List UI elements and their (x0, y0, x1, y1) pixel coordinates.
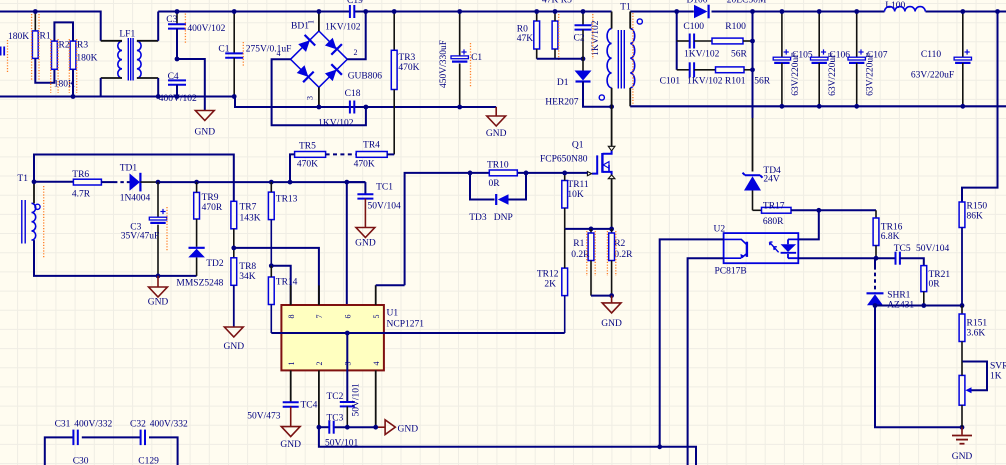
svg-text:4: 4 (372, 362, 381, 366)
svg-text:R150: R150 (967, 202, 988, 212)
svg-text:GND: GND (224, 342, 245, 352)
svg-text:TR16: TR16 (881, 223, 903, 233)
capacitor C4 X-cap (168, 79, 186, 81)
wire U2 anode riser (798, 210, 819, 239)
svg-text:50V/473: 50V/473 (247, 412, 281, 422)
svg-text:0.2R: 0.2R (614, 250, 633, 260)
diode TD4 24V zener (743, 173, 763, 178)
wire TC row (319, 426, 329, 428)
svg-text:D1: D1 (557, 78, 569, 88)
resistor TR10 (489, 170, 517, 176)
resistor TR16 (875, 210, 877, 218)
svg-text:PC817B: PC817B (715, 267, 747, 277)
wire R150 feed from output (962, 12, 998, 203)
resistor TR6 (73, 179, 101, 185)
wire top-left AC rail (0, 12, 101, 41)
capacitor TC5 (895, 252, 897, 265)
svg-text:D100: D100 (686, 0, 707, 6)
diode BD1 upper-left (297, 35, 315, 53)
capacitor C100 (677, 40, 690, 42)
resistor R151 (961, 306, 963, 315)
svg-text:R2: R2 (614, 239, 625, 249)
wire DRV jog to pin5 (376, 284, 405, 286)
svg-text:T1: T1 (620, 3, 631, 13)
svg-text:1KV/102: 1KV/102 (325, 22, 361, 32)
resistor R150 (959, 202, 965, 228)
svg-text:20LC50M: 20LC50M (727, 0, 767, 6)
svg-text:C100: C100 (683, 22, 704, 32)
capacitor C1 electrolytic 450V/330uF (459, 12, 461, 56)
wire R3 bottom (72, 69, 74, 96)
capacitor C31 (72, 430, 74, 446)
svg-text:8: 8 (287, 315, 296, 319)
svg-text:MMSZ5248: MMSZ5248 (176, 279, 223, 289)
node junction FB collector (657, 444, 662, 449)
svg-text:T1: T1 (17, 174, 28, 184)
svg-text:U2: U2 (714, 225, 726, 235)
diode TD3 DNP (470, 173, 495, 200)
wire GND tap from C3-C4 (177, 59, 205, 111)
node junction drain (609, 104, 614, 109)
svg-text:1KV/102: 1KV/102 (687, 76, 723, 86)
node junction TR10 left (468, 171, 473, 176)
optocoupler U2 PC817B (724, 233, 799, 263)
capacitor C18 (349, 101, 351, 114)
wire T1 secondary top lead (629, 12, 631, 29)
diode BD1 upper-right (324, 36, 342, 54)
svg-text:TR5: TR5 (299, 142, 316, 152)
node junction R3 bottom (71, 94, 76, 99)
capacitor TC4 (283, 401, 299, 403)
resistor R0 (534, 21, 540, 49)
svg-text:470K: 470K (398, 63, 419, 73)
svg-text:400V/102: 400V/102 (187, 24, 225, 34)
capacitor C2 (582, 12, 584, 26)
svg-text:C32: C32 (130, 420, 146, 430)
capacitor TC2 (340, 401, 355, 403)
svg-text:FCP650N80: FCP650N80 (540, 155, 588, 165)
svg-text:143K: 143K (240, 214, 261, 224)
op-amp U1 NCP1271 controller (281, 305, 384, 370)
wire T1 primary top lead (611, 12, 613, 29)
wire BD1 pin2 lead (347, 12, 365, 60)
wire bottom-left cap string (45, 437, 74, 465)
earth ground GND output (961, 427, 963, 435)
resistor TR11 (562, 181, 568, 209)
capacitor TC3 (328, 421, 330, 434)
svg-text:56R: 56R (754, 76, 771, 86)
wire aux bottom lead and bottom rail (34, 240, 197, 276)
svg-text:NCP1271: NCP1271 (387, 320, 425, 330)
svg-text:56R: 56R (731, 50, 748, 60)
node junction TR13 TR14 (269, 263, 274, 268)
wire CS row through U1 (271, 332, 564, 334)
diode D1 HER207 (575, 71, 592, 81)
diode D100 on output rail (694, 5, 708, 19)
resistor TR9 (194, 192, 200, 219)
wire U2 collector (660, 239, 724, 446)
svg-text:TR8: TR8 (239, 262, 256, 272)
wire aux top lead (33, 182, 35, 204)
svg-text:680R: 680R (763, 217, 784, 227)
capacitor C107 63V/220uF (856, 12, 858, 58)
svg-text:63V/220uF: 63V/220uF (866, 53, 876, 96)
node junction R1 top (33, 9, 38, 14)
node junction TR10 right (524, 171, 529, 176)
node junction pin3 CS (345, 331, 350, 336)
svg-text:TR21: TR21 (929, 270, 951, 280)
wire R1 bottom jog (35, 58, 54, 82)
pin 1 (290, 370, 292, 402)
resistor TR13 (268, 192, 274, 220)
svg-text:TC1: TC1 (376, 183, 393, 193)
svg-text:R0: R0 (517, 25, 528, 35)
diode TD2 MMSZ5248 zener (189, 247, 205, 249)
wire TC5 to TR21 (900, 258, 924, 265)
svg-text:TD2: TD2 (206, 259, 224, 269)
pin 3 (346, 333, 348, 402)
wire LF1 to main rail riser (157, 12, 159, 41)
pin 5 (375, 285, 377, 305)
svg-text:U1: U1 (387, 309, 399, 319)
svg-text:TR11: TR11 (567, 180, 589, 190)
shunt regulator SHR1 AZ431 (874, 258, 876, 266)
wire U2 cathode row (798, 257, 895, 259)
svg-text:TR6: TR6 (72, 170, 89, 180)
ground GND under TC1 (356, 228, 375, 238)
svg-text:63V/220uF: 63V/220uF (791, 53, 801, 96)
svg-text:R2: R2 (59, 41, 70, 51)
pin 2 (318, 370, 320, 427)
svg-text:50V/104: 50V/104 (368, 202, 402, 212)
ground GND aux (157, 276, 159, 287)
wire gate drive row (405, 173, 588, 285)
svg-text:C1: C1 (471, 53, 482, 63)
svg-text:24V: 24V (763, 175, 780, 185)
svg-text:0R: 0R (929, 280, 941, 290)
wire U2 emitter (688, 258, 724, 465)
svg-text:TC5: TC5 (894, 244, 911, 254)
ground GND below C4 tap (195, 111, 214, 121)
capacitor C3 35V/47uF (157, 182, 159, 217)
pin 8 (290, 285, 292, 305)
svg-text:GND: GND (952, 452, 973, 462)
svg-text:C1: C1 (218, 45, 229, 55)
diode BD1 lower-left (295, 64, 313, 82)
node junction C3-C4 midpoint (175, 57, 180, 62)
svg-text:1K: 1K (990, 371, 1002, 381)
svg-text:R1: R1 (40, 32, 51, 42)
svg-text:SHR1: SHR1 (887, 291, 910, 301)
resistor TR4 (356, 152, 387, 158)
wire TR5 left stub (290, 154, 295, 181)
diode BD1 lower-right (324, 64, 342, 82)
svg-text:180K: 180K (8, 32, 29, 42)
resistor R2 (52, 41, 58, 69)
resistor R1 0.2R (590, 229, 592, 233)
svg-text:400V/332: 400V/332 (74, 420, 112, 430)
wire U1 pin6 to VCC rail (346, 182, 348, 305)
svg-text:GND: GND (195, 128, 216, 138)
svg-text:C18: C18 (345, 89, 361, 99)
svg-text:2K: 2K (544, 280, 556, 290)
resistor TR21 (921, 266, 927, 292)
svg-text:4.7R: 4.7R (72, 190, 91, 200)
svg-text:C3: C3 (166, 15, 177, 25)
svg-text:SVR1: SVR1 (990, 362, 1006, 372)
svg-text:275V/0.1uF: 275V/0.1uF (246, 45, 292, 55)
wire SHR1 anode down (875, 306, 962, 428)
ground GND under TR8 (233, 285, 235, 327)
svg-text:47K: 47K (517, 34, 534, 44)
capacitor C3 X-cap (176, 12, 178, 25)
ground GND under TC4 (281, 427, 300, 437)
wire TR6 to TD1 (101, 181, 114, 183)
resistor TR17 (753, 209, 762, 211)
svg-text:470R: 470R (202, 203, 223, 213)
T1 polarity dot secondary (637, 19, 642, 24)
capacitor TC1 (347, 181, 366, 183)
wire R2 R3 top link (54, 22, 73, 41)
capacitor fragment at left edge (0, 47, 2, 56)
node junction TR7 TR8 (233, 229, 235, 258)
svg-text:400V/102: 400V/102 (159, 94, 197, 104)
wire TR4 right stub to TR3 (387, 153, 394, 155)
wire BD1 pin1 lead (318, 12, 320, 32)
wire secondary output ground rail (630, 105, 1006, 107)
svg-text:TD3: TD3 (469, 213, 487, 223)
svg-text:C110: C110 (921, 50, 941, 60)
svg-text:1N4004: 1N4004 (120, 194, 151, 204)
svg-text:DNP: DNP (494, 213, 513, 223)
svg-text:2: 2 (315, 362, 324, 366)
svg-text:0R: 0R (489, 179, 501, 189)
resistor R100 (712, 38, 743, 44)
capacitor C106 63V/220uF (818, 12, 820, 58)
pin 4 (375, 370, 377, 427)
svg-text:R100: R100 (725, 22, 746, 32)
svg-text:2: 2 (354, 48, 358, 57)
svg-text:47K R5: 47K R5 (542, 0, 572, 6)
svg-text:1KV/102: 1KV/102 (318, 118, 354, 128)
capacitor C32 (140, 430, 142, 446)
svg-text:C129: C129 (138, 457, 159, 465)
resistor R3 (70, 41, 76, 69)
svg-text:470K: 470K (297, 159, 318, 169)
svg-text:R3: R3 (77, 41, 88, 51)
capacitor C101 (677, 69, 690, 71)
wire TR7 junction to U1 pin7 (234, 248, 319, 305)
svg-text:C31: C31 (55, 420, 71, 430)
svg-text:TR7: TR7 (240, 203, 257, 213)
resistor R1 (34, 12, 36, 31)
wire aux sense riser (34, 155, 234, 202)
svg-text:3.6K: 3.6K (967, 328, 986, 338)
node junction earth (960, 425, 965, 430)
svg-text:GND: GND (148, 298, 169, 308)
pin 7 (318, 285, 320, 305)
wire LF1 top-left lead (101, 40, 122, 42)
node junction LF1 bottom right (156, 94, 161, 99)
capacitor C19 (349, 5, 351, 18)
svg-text:5: 5 (372, 315, 381, 319)
svg-text:C30: C30 (73, 457, 89, 465)
wire TR5 TR4 link (326, 153, 357, 155)
wire R1 R2 bottom (591, 295, 612, 297)
svg-text:1: 1 (306, 20, 315, 24)
svg-text:63V/220uF: 63V/220uF (911, 71, 954, 81)
svg-text:450V/330uF: 450V/330uF (439, 40, 449, 88)
svg-text:6.8K: 6.8K (881, 232, 900, 242)
svg-text:34K: 34K (239, 272, 256, 282)
wire aux VCC rail (34, 181, 73, 183)
svg-text:R1: R1 (573, 239, 584, 249)
wire T1 secondary bottom lead (629, 88, 631, 107)
ground GND under R1 R2 (611, 296, 613, 303)
wire FB to optocoupler (319, 427, 696, 465)
power GND arrow right (385, 420, 395, 435)
svg-text:TR9: TR9 (202, 193, 219, 203)
svg-text:C101: C101 (660, 76, 681, 86)
svg-text:GND: GND (398, 425, 419, 435)
svg-text:180K: 180K (54, 80, 75, 90)
resistor R101 (716, 67, 745, 73)
svg-text:4: 4 (277, 49, 281, 58)
wire LF1 bottom-left lead (101, 77, 122, 79)
ground GND primary bus (495, 107, 497, 116)
svg-text:3: 3 (305, 96, 314, 100)
svg-text:C19: C19 (347, 0, 363, 6)
svg-text:HER207: HER207 (545, 98, 579, 108)
svg-text:GND: GND (355, 239, 376, 249)
svg-text:7: 7 (315, 315, 324, 319)
svg-text:10K: 10K (567, 190, 584, 200)
wire C100 branch left (676, 12, 678, 70)
wire clamp bottom (537, 58, 583, 60)
svg-text:86K: 86K (967, 211, 984, 221)
capacitor C105 63V/220uF (781, 12, 783, 58)
svg-text:470K: 470K (354, 159, 375, 169)
capacitor C1 X-cap (233, 12, 235, 54)
diode TD1 1N4004 (130, 173, 140, 190)
T1 polarity dot primary (599, 95, 604, 100)
svg-text:C4: C4 (168, 72, 179, 82)
wire LF1 top-right lead (137, 40, 158, 42)
svg-text:TR4: TR4 (363, 141, 380, 151)
svg-text:TC2: TC2 (326, 392, 343, 402)
svg-text:TR3: TR3 (398, 53, 415, 63)
wire R100 branch right (752, 12, 754, 119)
svg-text:TC3: TC3 (326, 414, 343, 424)
svg-text:TR13: TR13 (276, 195, 298, 205)
svg-text:Q1: Q1 (572, 141, 584, 151)
resistor TR14 (268, 277, 274, 305)
wire T1 primary bottom lead (611, 88, 613, 107)
svg-text:GND: GND (486, 129, 507, 139)
node junction TR17 anode (816, 208, 821, 213)
resistor TR5 (295, 152, 326, 158)
svg-text:GND: GND (601, 319, 622, 329)
wire TR14 top to U1 pin8 (271, 266, 290, 305)
svg-text:R101: R101 (725, 76, 746, 86)
svg-text:TR17: TR17 (763, 201, 785, 211)
wire BD1 pin4 loop (272, 59, 366, 125)
resistor TR7 (231, 201, 237, 229)
transistor Q1 FCP650N80 (611, 107, 613, 147)
svg-text:TR14: TR14 (276, 278, 298, 288)
svg-text:50V/104: 50V/104 (916, 244, 950, 254)
svg-text:35V/47uF: 35V/47uF (121, 232, 160, 242)
svg-text:TR12: TR12 (537, 269, 559, 279)
svg-text:GUB806: GUB806 (348, 71, 383, 81)
capacitor C110 63V/220uF (962, 12, 964, 58)
svg-text:6: 6 (343, 315, 352, 319)
wire VCC rail (158, 181, 365, 183)
svg-text:63V/220uF: 63V/220uF (828, 53, 838, 96)
wire feedback row (875, 305, 962, 307)
wire source row (565, 228, 612, 230)
potentiometer SVR1 1K (962, 362, 987, 391)
svg-text:TR10: TR10 (487, 160, 509, 170)
svg-text:TC4: TC4 (301, 401, 318, 411)
svg-text:50V/101: 50V/101 (352, 383, 362, 417)
resistor R5 (552, 21, 558, 49)
svg-text:GND: GND (280, 440, 301, 450)
svg-text:TD1: TD1 (120, 164, 138, 174)
svg-text:180K: 180K (76, 54, 97, 64)
svg-text:1KV/102: 1KV/102 (684, 50, 720, 60)
bridge rectifier BD1 GUB806 (291, 31, 348, 87)
svg-text:3: 3 (343, 362, 352, 366)
resistor TR3 (393, 12, 395, 51)
node junction C3 bottom (156, 274, 161, 279)
svg-text:R151: R151 (967, 319, 988, 329)
resistor TR8 (231, 258, 237, 286)
wire BD1 pin3 lead (318, 87, 320, 107)
svg-text:400V/332: 400V/332 (150, 420, 188, 430)
wire bottom-left AC rail and primary GND bus (0, 97, 496, 108)
resistor R2 0.2R (611, 229, 613, 233)
svg-text:C2: C2 (574, 34, 585, 44)
resistor TR12 (562, 268, 568, 296)
svg-text:1: 1 (287, 362, 296, 366)
wire main top rail (158, 11, 349, 13)
wire LF1 bottom-right lead (137, 77, 158, 79)
